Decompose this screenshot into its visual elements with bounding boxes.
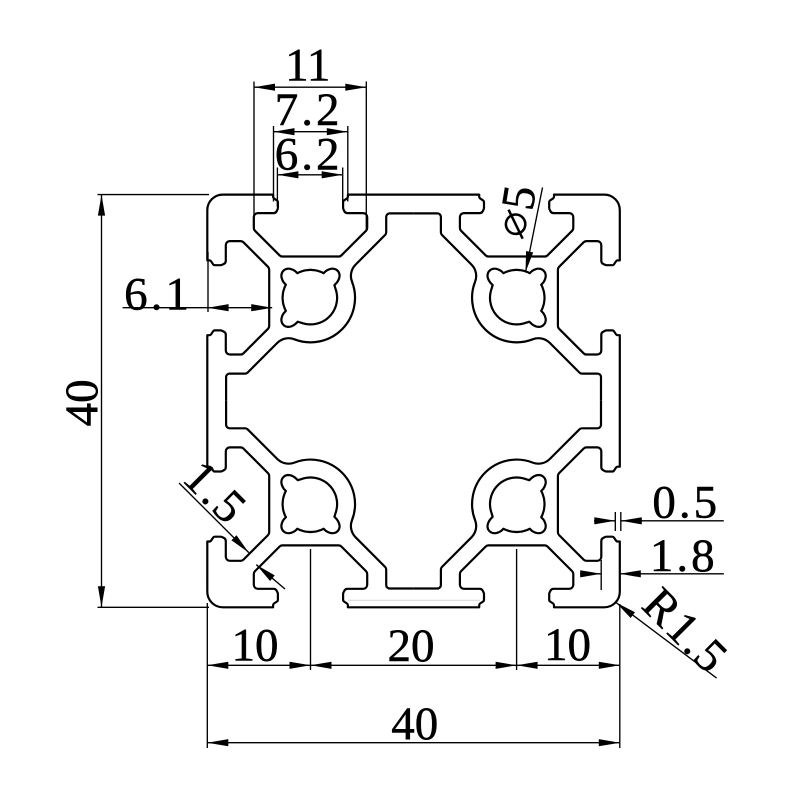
dim 40 left [98, 194, 210, 196]
faint construction line bottom face [348, 599, 480, 601]
dim 7.2 [273, 126, 275, 202]
svg-text:10: 10 [232, 620, 279, 672]
dim 6.1 [207, 252, 209, 312]
svg-text:6.1: 6.1 [124, 269, 192, 321]
dim 6.2 [276, 168, 278, 207]
screw boss hole TR [488, 269, 546, 327]
label diameter 5 leader [526, 188, 543, 273]
screw boss hole BR [488, 475, 546, 533]
screw boss hole BL [281, 475, 339, 533]
dims 10 20 10 [310, 549, 312, 670]
svg-text:40: 40 [56, 379, 108, 426]
central cavity quadrant BR [414, 401, 601, 588]
screw boss hole TL [281, 269, 339, 327]
dim 1.8 [600, 560, 602, 590]
svg-text:20: 20 [388, 620, 435, 672]
label R1.5 [616, 603, 717, 679]
profile outer boundary with 8 T-slots [207, 195, 620, 608]
dim 11 [253, 82, 255, 231]
central cavity quadrant BL [226, 401, 413, 588]
dim 40 bottom [207, 742, 620, 744]
svg-text:40: 40 [391, 698, 438, 750]
dim 0.5 [614, 512, 616, 531]
svg-text:0.5: 0.5 [652, 476, 720, 528]
dim 1.5 text [173, 451, 258, 536]
svg-text:6.2: 6.2 [275, 129, 343, 181]
svg-text:10: 10 [544, 619, 591, 671]
label diameter 5 text [487, 182, 547, 241]
central cavity quadrant TL [226, 213, 413, 401]
dim 1.5 leader arrows [179, 483, 249, 553]
svg-text:1.8: 1.8 [650, 530, 718, 582]
central cavity quadrant TR [414, 213, 601, 401]
